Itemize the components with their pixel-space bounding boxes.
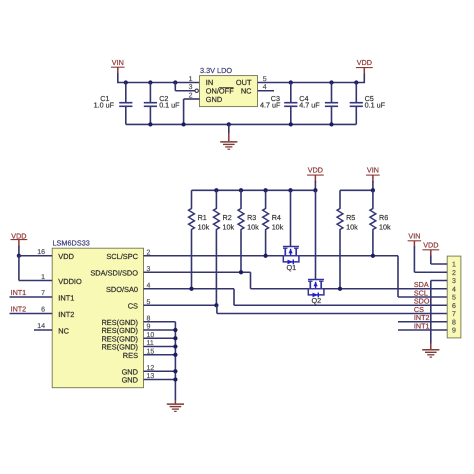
wire pin15 stub (144, 354, 176, 356)
label R2 10k (223, 213, 235, 231)
svg-text:VIN: VIN (367, 166, 379, 175)
svg-text:INT1: INT1 (58, 293, 74, 302)
svg-text:R5: R5 (346, 213, 355, 222)
svg-text:INT1: INT1 (11, 288, 27, 297)
svg-text:4.7 uF: 4.7 uF (260, 101, 281, 110)
svg-text:0.1 uF: 0.1 uF (159, 101, 180, 110)
wire SDO jog down (234, 289, 447, 306)
svg-text:0.1 uF: 0.1 uF (365, 101, 386, 110)
svg-text:4: 4 (452, 286, 456, 293)
ground (below LDO) (220, 124, 237, 149)
net label VIN (top left) (111, 58, 125, 74)
wire branch to ON/OFF pin (175, 83, 195, 91)
connector J1 box (447, 256, 461, 338)
junction ground stem (227, 122, 231, 126)
svg-text:2: 2 (452, 270, 456, 277)
op-amp U1 3.3V LDO regulator box (200, 76, 258, 107)
junction R6 top / VIN (371, 188, 375, 192)
net label VIN (connector) (408, 231, 422, 247)
wire pin8 stub (144, 321, 176, 323)
svg-text:R2: R2 (223, 213, 232, 222)
svg-text:Q1: Q1 (287, 263, 297, 272)
junction Q2 gate / VDD (313, 188, 317, 192)
IC U2 LSM6DS33 box (52, 248, 143, 388)
net label VDD (top right) (356, 58, 373, 74)
junction R3 top (239, 188, 243, 192)
junction C2 bottom (148, 122, 152, 126)
resistor R1 (189, 190, 195, 288)
svg-text:6: 6 (452, 303, 456, 310)
inversion bubble ON/OFF pin (195, 89, 198, 92)
svg-text:LSM6DS33: LSM6DS33 (53, 239, 90, 248)
svg-text:GND: GND (206, 95, 222, 104)
svg-text:VDD: VDD (423, 240, 438, 249)
wire top input rail VIN to LDO IN (117, 82, 200, 84)
wire GND connector pin 3 (431, 281, 447, 344)
junction C3 bottom (289, 122, 293, 126)
svg-text:SCL/SPC: SCL/SPC (106, 252, 138, 261)
wire bottom ground rail (126, 123, 356, 125)
label R6 10k (379, 213, 391, 231)
wire VIN stub down to input rail (117, 73, 119, 83)
ground (connector) (422, 344, 439, 358)
junction R3 / SDA row (239, 270, 243, 274)
wire VDD pullup rail (192, 189, 316, 191)
wire pin11 stub (144, 346, 176, 348)
label R4 10k (272, 213, 284, 231)
label R3 10k (247, 213, 259, 231)
capacitor C3 (284, 83, 297, 125)
junction pin15 (173, 353, 177, 357)
svg-text:1.0 uF: 1.0 uF (94, 101, 115, 110)
wire CS row (pin5) (144, 304, 217, 306)
svg-text:7: 7 (41, 290, 45, 297)
resistor R5 (337, 190, 343, 288)
label C5 value (365, 94, 386, 109)
svg-text:1: 1 (452, 262, 456, 269)
svg-text:INT1: INT1 (414, 321, 430, 330)
svg-text:RES: RES (123, 351, 138, 360)
svg-text:VDD: VDD (58, 252, 74, 261)
junction C2 top (148, 80, 152, 84)
junction R4 top (263, 188, 267, 192)
wire pin12 GND stub (144, 370, 176, 372)
wire pin13 GND stub (144, 379, 176, 381)
resistor R2 (214, 190, 220, 305)
junction R4 / SCL row (263, 254, 267, 258)
capacitor C5 (350, 83, 363, 125)
wire VDD stub to rail (314, 181, 316, 190)
net label VIN (pullup rail) (366, 166, 380, 182)
svg-text:10k: 10k (346, 222, 358, 231)
svg-text:R6: R6 (379, 213, 388, 222)
pin name ON/OFF with overline (206, 87, 234, 96)
svg-text:SDO/SA0: SDO/SA0 (106, 285, 138, 294)
wire Q2 gate column (315, 190, 317, 279)
svg-text:14: 14 (37, 323, 45, 330)
junction ON/OFF branch (173, 80, 177, 84)
wire pin10 stub (144, 337, 176, 339)
wire Q1 right to corner (299, 255, 398, 257)
wire LDO OUT rail (258, 82, 365, 84)
svg-text:R4: R4 (272, 213, 281, 222)
net label INT1 with wire (10, 288, 53, 297)
junction Q1 gate (288, 188, 292, 192)
wire SCL/SPC row (pin2) to Q1 (144, 255, 284, 257)
wire pin9 stub (144, 329, 176, 331)
junction pin11 (173, 344, 177, 348)
wire VIN pullup rail (340, 189, 373, 191)
svg-text:3.3V LDO: 3.3V LDO (200, 66, 232, 75)
junction C5 top (354, 80, 358, 84)
svg-text:9: 9 (452, 328, 456, 335)
svg-text:6: 6 (41, 307, 45, 314)
junction R2 / CS row (214, 303, 218, 307)
wire VDD to connector pin 1 (431, 256, 447, 265)
svg-text:1: 1 (189, 76, 193, 83)
wire SDA/SDI/SDO row (pin3) (144, 271, 251, 273)
svg-text:10k: 10k (272, 222, 284, 231)
label C1 value (94, 94, 115, 109)
wire VIN stub to rail (372, 181, 374, 190)
svg-text:3: 3 (452, 278, 456, 285)
capacitor C4 (325, 83, 338, 125)
net label INT2 (connector) with wire pin 8 (398, 313, 447, 322)
resistor R3 (238, 190, 244, 272)
wire Q1 gate column (290, 190, 292, 246)
resistor R6 (370, 190, 376, 255)
junction C4 top (329, 80, 333, 84)
svg-text:INT2: INT2 (11, 305, 27, 314)
wire VIN to connector pin 2 (414, 247, 447, 273)
wire NC stub (258, 90, 275, 92)
label R1 10k (198, 213, 210, 231)
capacitor C2 (144, 83, 157, 125)
svg-text:Q2: Q2 (312, 296, 322, 305)
junction C4 bottom (329, 122, 333, 126)
wire Q2 right to connector (SDA) (323, 288, 447, 290)
svg-text:R1: R1 (198, 213, 207, 222)
junction pin10 (173, 336, 177, 340)
svg-text:4.7 uF: 4.7 uF (299, 101, 320, 110)
svg-text:1: 1 (41, 274, 45, 281)
junction C3 top (289, 80, 293, 84)
junction C1 top (124, 80, 128, 84)
wire VDD to pin 16 (19, 255, 52, 257)
ground (below IC) (167, 401, 184, 412)
junction LDO GND (181, 122, 185, 126)
wire SDO/SA0 row (pin4) (144, 288, 235, 290)
svg-text:VDDIO: VDDIO (58, 277, 82, 286)
label C2 value (159, 94, 180, 109)
svg-text:16: 16 (37, 249, 45, 256)
net label VDD (pullup rail) (307, 166, 324, 182)
svg-text:10k: 10k (247, 222, 259, 231)
junction R6 bottom (371, 254, 375, 258)
junction pin12 (173, 369, 177, 373)
svg-text:VDD: VDD (308, 166, 323, 175)
transistor Q1 (283, 247, 299, 273)
svg-text:NC: NC (241, 87, 252, 96)
svg-text:NC: NC (58, 326, 69, 335)
svg-text:10k: 10k (379, 222, 391, 231)
svg-text:INT2: INT2 (58, 310, 74, 319)
svg-text:VDD: VDD (11, 231, 26, 240)
label R5 10k (346, 213, 358, 231)
resistor R4 (263, 190, 269, 255)
svg-text:10k: 10k (198, 222, 210, 231)
net label INT1 (connector) with wire pin 9 (398, 321, 447, 330)
svg-text:R3: R3 (247, 213, 256, 222)
svg-text:GND: GND (122, 376, 138, 385)
junction R1 / SDO row (189, 287, 193, 291)
capacitor C1 (119, 83, 132, 125)
transistor Q2 (308, 280, 324, 306)
net label VDD (IC left) (11, 231, 28, 247)
svg-text:VIN: VIN (112, 58, 124, 67)
label C3 value (260, 94, 281, 109)
wire RES bus vertical (174, 322, 176, 401)
svg-text:8: 8 (452, 319, 456, 326)
wire VDD stub down (363, 74, 365, 84)
svg-text:VIN: VIN (408, 231, 420, 240)
svg-text:CS: CS (128, 302, 138, 311)
label C4 value (299, 94, 320, 109)
junction VDD/VDDIO (17, 254, 21, 258)
svg-text:3: 3 (189, 84, 193, 91)
svg-text:7: 7 (452, 311, 456, 318)
svg-text:10k: 10k (223, 222, 235, 231)
junction pin9 (173, 328, 177, 332)
junction R2 top (214, 188, 218, 192)
wire SCL down jog (398, 256, 447, 297)
wire VDD stub down to pin16 (18, 246, 20, 256)
svg-text:VDD: VDD (357, 58, 372, 67)
net label VDD (connector) (422, 240, 439, 256)
wire VDD down to VDDIO (18, 256, 20, 281)
svg-text:5: 5 (452, 295, 456, 302)
junction R5 bottom (338, 287, 342, 291)
wire LDO GND pin down (184, 99, 200, 124)
junction pin13 (173, 377, 177, 381)
wire NC stub pin 14 (34, 329, 52, 331)
net label INT2 with wire (10, 305, 53, 314)
wire SDA jog down (251, 272, 309, 289)
svg-text:SDA/SDI/SDO: SDA/SDI/SDO (90, 269, 138, 278)
wire to pin 1 VDDIO (19, 280, 52, 282)
wire CS jog down (217, 305, 447, 313)
